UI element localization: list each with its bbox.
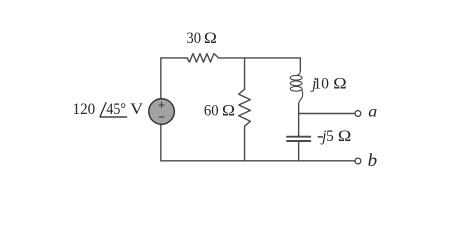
inductor L1 loop3 [290,86,302,91]
svg-text:b: b [368,150,378,170]
terminal b circle [355,158,361,164]
svg-text:30: 30 [186,30,201,47]
inductor L1 bottom tail [299,90,303,104]
svg-text:V: V [130,101,143,118]
svg-text:Ω: Ω [333,75,346,92]
wire right rail upper stub [299,58,301,71]
svg-text:a: a [368,103,377,120]
svg-text:10: 10 [314,75,330,92]
svg-text:45°: 45° [106,101,126,118]
capacitor C1 top plate [287,136,310,138]
svg-text:120: 120 [73,101,96,118]
inductor L1 loop2 [290,81,302,86]
wire top-left horizontal segment [161,57,187,59]
resistor R2 60ohm zigzag [239,89,251,126]
voltage source plus sign [159,102,165,108]
angle symbol diagonal [100,102,106,117]
voltage source V1 [149,99,175,125]
wire right rail middle [298,104,300,136]
resistor R1 30ohm zigzag [187,54,219,63]
voltage source minus sign [159,116,165,118]
svg-text:5: 5 [326,128,334,145]
svg-text:Ω: Ω [338,128,351,145]
angle symbol underline [100,116,127,118]
wire 60ohm branch lower [244,126,246,161]
svg-text:Ω: Ω [222,102,235,119]
svg-text:Ω: Ω [204,30,217,47]
label -j5 ohm minus stroke [318,136,323,138]
capacitor C1 bottom plate [287,140,310,142]
inductor L1 top hook [296,71,300,76]
wire bottom rail [161,160,355,162]
wire 60ohm branch upper [244,58,246,89]
wire left rail upper [160,58,162,99]
wire left rail lower [160,124,162,161]
wire right rail below capacitor [298,142,300,161]
terminal a circle [355,111,361,117]
wire node to terminal a [299,113,355,115]
inductor L1 loop1 [290,75,302,80]
wire top-right horizontal segment to right rail [219,57,301,59]
svg-text:60: 60 [204,102,219,119]
